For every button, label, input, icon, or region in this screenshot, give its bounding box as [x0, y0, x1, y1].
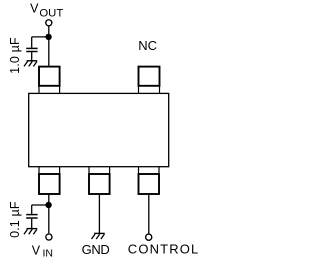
svg-text:0.1 µF: 0.1 µF	[8, 201, 22, 238]
svg-text:V: V	[30, 1, 39, 15]
svg-text:CONTROL: CONTROL	[128, 242, 200, 257]
svg-text:GND: GND	[82, 242, 110, 257]
svg-text:NC: NC	[138, 38, 157, 53]
svg-text:V: V	[32, 243, 41, 257]
svg-text:IN: IN	[43, 248, 54, 260]
svg-text:OUT: OUT	[39, 7, 63, 19]
svg-text:1.0 µF: 1.0 µF	[8, 37, 22, 74]
